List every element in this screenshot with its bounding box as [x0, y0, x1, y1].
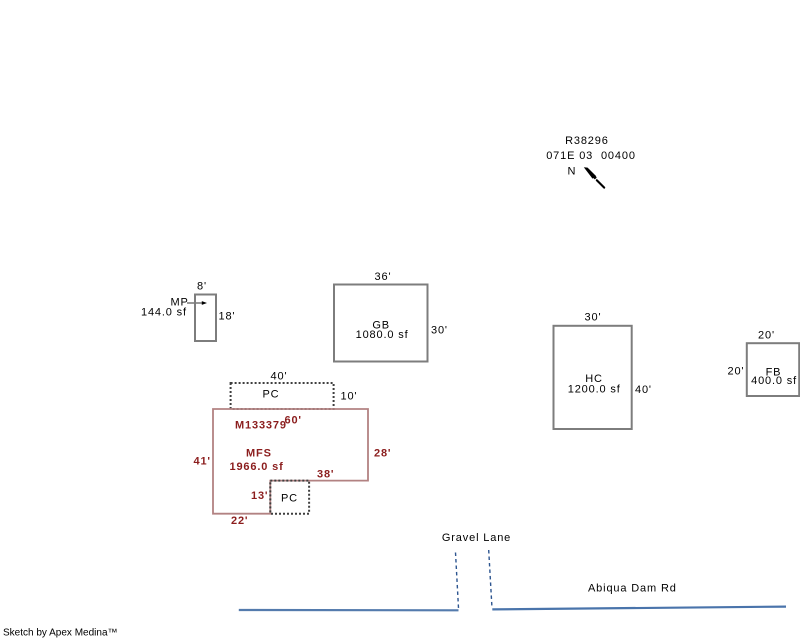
- driveway dashed line right: [489, 550, 492, 607]
- road line left (Abiqua Dam Rd west): [239, 609, 459, 611]
- svg-text:40': 40': [635, 384, 652, 396]
- building HC rect: [554, 326, 632, 429]
- svg-text:M133379: M133379: [235, 420, 287, 432]
- svg-text:13': 13': [251, 490, 268, 502]
- svg-text:30': 30': [431, 325, 448, 337]
- svg-text:41': 41': [194, 456, 211, 468]
- svg-text:PC: PC: [263, 389, 280, 401]
- svg-text:8': 8': [197, 280, 207, 292]
- svg-text:30': 30': [585, 312, 602, 324]
- svg-text:1966.0 sf: 1966.0 sf: [230, 461, 284, 473]
- svg-text:38': 38': [317, 469, 334, 481]
- svg-text:28': 28': [374, 447, 391, 459]
- svg-text:20': 20': [758, 329, 775, 341]
- arrow MP pointer: [187, 301, 207, 305]
- svg-text:PC: PC: [281, 493, 298, 505]
- svg-text:36': 36': [375, 271, 392, 283]
- svg-text:144.0 sf: 144.0 sf: [141, 307, 187, 319]
- driveway dashed line left: [456, 553, 459, 611]
- svg-text:Abiqua Dam Rd: Abiqua Dam Rd: [588, 583, 677, 595]
- porch PC top dashed rect: [231, 383, 334, 409]
- svg-text:Sketch by Apex Medina™: Sketch by Apex Medina™: [3, 627, 118, 638]
- svg-text:20': 20': [728, 365, 745, 377]
- svg-text:MFS: MFS: [246, 447, 272, 459]
- svg-text:N: N: [568, 165, 577, 177]
- svg-text:R38296: R38296: [565, 135, 609, 147]
- building FB rect: [747, 343, 799, 396]
- road line right (Abiqua Dam Rd east): [492, 607, 786, 610]
- svg-text:Gravel Lane: Gravel Lane: [442, 532, 511, 544]
- building MFS outline: [213, 409, 368, 514]
- svg-text:18': 18': [219, 311, 236, 323]
- svg-text:400.0 sf: 400.0 sf: [751, 375, 797, 387]
- north needle: [584, 167, 604, 187]
- svg-text:40': 40': [271, 370, 288, 382]
- building GB rect: [334, 285, 428, 362]
- svg-text:071E 03 00400: 071E 03 00400: [546, 150, 636, 162]
- svg-text:22': 22': [231, 515, 248, 527]
- porch PC bottom dashed rect: [270, 481, 309, 514]
- svg-text:1200.0 sf: 1200.0 sf: [568, 383, 621, 395]
- building MP rect: [195, 295, 216, 342]
- svg-text:60': 60': [285, 414, 302, 426]
- svg-text:10': 10': [341, 390, 358, 402]
- svg-text:1080.0 sf: 1080.0 sf: [356, 329, 409, 341]
